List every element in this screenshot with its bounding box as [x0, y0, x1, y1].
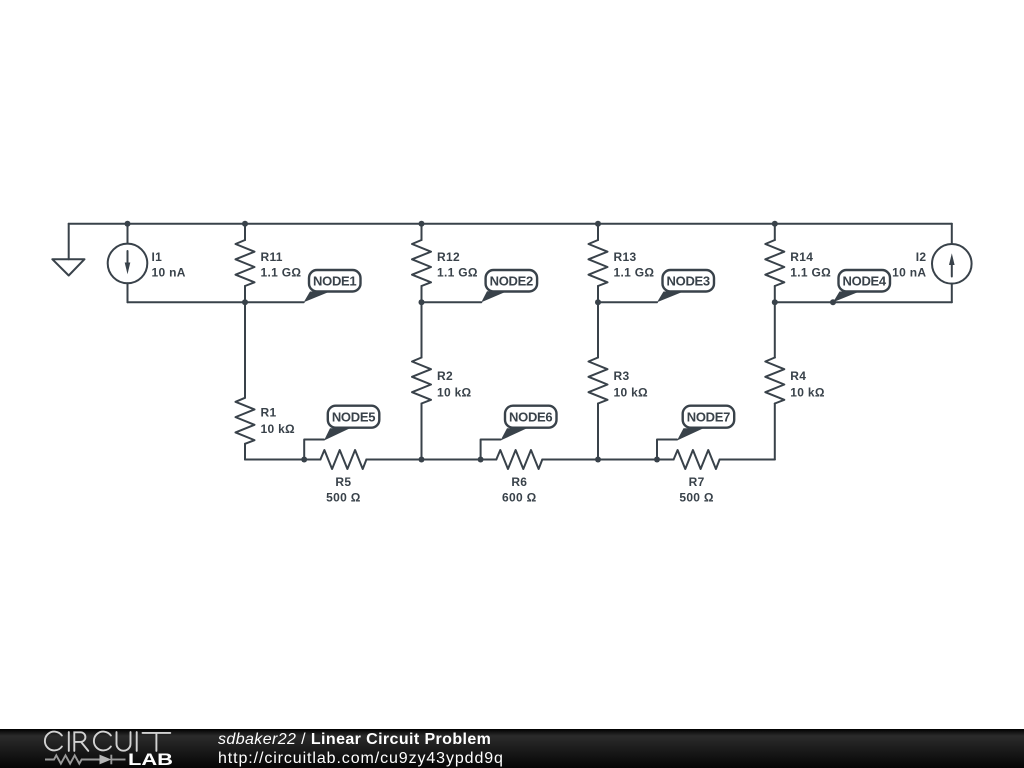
junction: bottom bus / NODE6 stub	[478, 457, 484, 463]
node NODE2	[481, 270, 537, 302]
node NODE6	[501, 406, 557, 441]
wire: column under R12 to R2	[421, 302, 423, 357]
junction: node3 / R13 bottom	[595, 299, 601, 305]
wire: bottom bus between R6 and R7	[542, 459, 673, 461]
svg-text:R1: R1	[261, 405, 277, 419]
node NODE3	[657, 270, 714, 302]
junction: top bus / R13	[595, 221, 601, 227]
CircuitLab logo	[0, 729, 200, 768]
resistor R13	[589, 224, 608, 302]
svg-text:1.1 GΩ: 1.1 GΩ	[261, 266, 302, 280]
wire: node3 row stub	[598, 301, 657, 303]
svg-text:NODE3: NODE3	[667, 274, 710, 289]
resistor R12	[412, 224, 431, 302]
svg-text:NODE6: NODE6	[509, 410, 552, 425]
wire: node2 row stub	[422, 301, 482, 303]
svg-text:10 kΩ: 10 kΩ	[261, 422, 296, 436]
svg-text:NODE1: NODE1	[313, 274, 356, 289]
junction: bottom bus / R3	[595, 457, 601, 463]
resistor R4	[765, 358, 784, 460]
wire: bottom bus between R5 and R6	[366, 459, 496, 461]
junction: top bus / R12	[419, 221, 425, 227]
svg-text:I1: I1	[152, 250, 163, 264]
svg-text:1.1 GΩ: 1.1 GΩ	[614, 266, 655, 280]
svg-text:R6: R6	[511, 475, 527, 489]
junction dots	[125, 221, 837, 463]
wire: column under R13 to R3	[597, 302, 599, 357]
ground	[52, 224, 84, 276]
junction: bottom bus / NODE5 stub	[301, 457, 307, 463]
svg-text:500 Ω: 500 Ω	[326, 491, 361, 505]
svg-text:600 Ω: 600 Ω	[502, 491, 537, 505]
svg-text:1.1 GΩ: 1.1 GΩ	[790, 266, 831, 280]
svg-text:NODE2: NODE2	[490, 274, 533, 289]
svg-text:R4: R4	[790, 369, 806, 383]
node NODE7	[677, 406, 734, 441]
svg-text:I2: I2	[916, 250, 927, 264]
svg-text:10 kΩ: 10 kΩ	[437, 385, 472, 399]
wire: bottom bus right segment up to R4	[720, 459, 775, 461]
junction: bottom bus / NODE7 stub	[654, 457, 660, 463]
wire: NODE6 stub	[481, 440, 501, 460]
svg-text:10 kΩ: 10 kΩ	[614, 385, 649, 399]
junction: top bus / I1	[125, 221, 131, 227]
resistor R3	[589, 358, 608, 460]
footer url text	[218, 750, 504, 768]
wire: top bus	[69, 223, 952, 225]
svg-text:R3: R3	[614, 369, 630, 383]
node NODE4	[833, 270, 890, 302]
junction: bottom bus / R2	[419, 457, 425, 463]
svg-text:R13: R13	[614, 250, 637, 264]
node NODE5	[324, 406, 379, 441]
node NODE1	[304, 270, 361, 302]
svg-text:R5: R5	[335, 475, 351, 489]
svg-text:R11: R11	[261, 250, 283, 264]
current source I2	[932, 224, 972, 302]
svg-text:10 nA: 10 nA	[152, 266, 186, 280]
svg-text:R14: R14	[790, 250, 813, 264]
svg-text:10 kΩ: 10 kΩ	[790, 385, 825, 399]
svg-text:10 nA: 10 nA	[892, 266, 926, 280]
resistor R1	[236, 398, 255, 460]
svg-text:R7: R7	[689, 475, 705, 489]
resistor R11	[236, 224, 255, 302]
junction: node4 / NODE4 tail	[830, 299, 836, 305]
junction: node4 / R14 bottom	[772, 299, 778, 305]
node flags	[304, 270, 890, 441]
wire: node4 row (R14 to I2)	[775, 301, 952, 303]
footer title text	[218, 731, 491, 749]
svg-text:NODE5: NODE5	[332, 410, 375, 425]
junction: node2 / R12 bottom	[419, 299, 425, 305]
resistor R5	[320, 450, 366, 469]
junction: node1 / R11 bottom	[242, 299, 248, 305]
footer bar	[0, 729, 1024, 768]
svg-text:NODE7: NODE7	[687, 410, 730, 425]
wire: NODE5 stub	[304, 440, 324, 460]
svg-text:R2: R2	[437, 369, 453, 383]
resistor R6	[496, 450, 542, 469]
wire: NODE7 stub	[657, 440, 677, 460]
wire: column under R14 to R4	[774, 302, 776, 357]
wire: bottom bus left segment	[245, 459, 320, 461]
wire: node1 row (I1 to NODE1 tail)	[128, 301, 304, 303]
svg-text:500 Ω: 500 Ω	[679, 491, 714, 505]
junction: top bus / R11	[242, 221, 248, 227]
svg-text:NODE4: NODE4	[843, 274, 887, 289]
resistor R2	[412, 358, 431, 460]
svg-text:R12: R12	[437, 250, 460, 264]
svg-text:LAB: LAB	[128, 751, 173, 768]
junction: top bus / R14	[772, 221, 778, 227]
resistor R14	[765, 224, 784, 302]
svg-text:1.1 GΩ: 1.1 GΩ	[437, 266, 478, 280]
wire: column under R11 to R1	[244, 302, 246, 398]
current source I1	[108, 224, 148, 302]
resistor R7	[674, 450, 720, 469]
